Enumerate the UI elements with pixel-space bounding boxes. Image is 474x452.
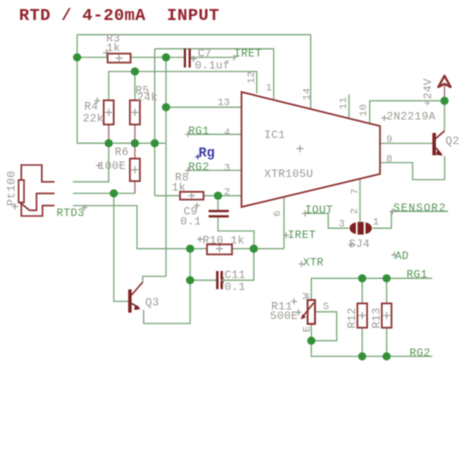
wire Q3 emitter loop	[144, 280, 191, 323]
transistor Q2 2N2219A	[432, 131, 444, 156]
svg-text:100E: 100E	[98, 161, 126, 173]
origin cross R4	[94, 98, 100, 104]
wire pin6	[283, 198, 285, 249]
capacitor C7	[184, 49, 191, 68]
svg-text:RG2: RG2	[410, 348, 431, 360]
wire Pt100 T1	[73, 143, 109, 182]
wire IRET vertical rail	[165, 57, 167, 276]
junction node pin2	[214, 192, 222, 200]
junction node R3 rail	[73, 53, 81, 61]
wire Pt100 T3 to R10 row	[73, 206, 207, 249]
origin cross R11	[291, 298, 297, 304]
wire C11 left	[190, 279, 216, 281]
capacitor C9	[209, 210, 229, 218]
wire RG1 bottom row	[311, 278, 432, 300]
junction node R5 top	[131, 67, 139, 75]
wire R11 S loop	[311, 312, 336, 341]
resistor R13	[382, 303, 392, 327]
origin cross C11	[221, 277, 227, 283]
wire Pt100 T2	[73, 192, 135, 194]
capacitor C11	[216, 271, 223, 289]
svg-text:8: 8	[386, 153, 392, 165]
wire C9 bottom loop	[218, 218, 254, 249]
origin cross RTD3	[82, 205, 88, 211]
svg-text:Rg: Rg	[199, 147, 215, 162]
wire C9 top stub	[217, 196, 219, 210]
junction node pin13	[162, 103, 170, 111]
svg-text:XTR105U: XTR105U	[264, 169, 313, 181]
svg-text:+24V: +24V	[423, 78, 435, 106]
op-amp U1 XTR105U body	[242, 92, 381, 207]
svg-text:1k: 1k	[172, 183, 186, 195]
origin cross IRET bottom	[283, 232, 289, 238]
origin cross SJ4	[348, 242, 354, 248]
svg-text:2: 2	[224, 186, 230, 198]
origin cross R10	[197, 236, 203, 242]
wire left rail	[76, 35, 78, 144]
svg-text:0.1: 0.1	[180, 216, 201, 228]
wire pin8 to Q2 emitter	[380, 156, 445, 180]
origin cross C7	[190, 56, 196, 62]
svg-text:3: 3	[339, 218, 345, 230]
origin cross IOUT	[302, 210, 308, 216]
svg-text:R10 1k: R10 1k	[203, 235, 245, 247]
wire RG2 bottom row	[311, 341, 432, 357]
wire C11 left rail	[189, 249, 191, 281]
svg-text:11: 11	[338, 97, 350, 109]
wire R13 stubs	[386, 278, 388, 356]
svg-text:2: 2	[349, 208, 361, 214]
wire pin13	[166, 106, 242, 108]
resistor R10	[207, 244, 232, 254]
junction node R11 bottom	[307, 337, 315, 345]
junction node R13 top	[383, 274, 391, 282]
svg-text:1: 1	[266, 83, 272, 95]
solder jumper SJ4	[350, 222, 372, 235]
stub R6 top	[134, 143, 136, 158]
wire row y143	[77, 142, 166, 144]
wire pin14 drop	[310, 35, 312, 110]
wire R5 top stub	[134, 72, 136, 101]
svg-text:Q2: Q2	[446, 136, 460, 148]
svg-text:4: 4	[224, 127, 230, 139]
junction node C11 left	[186, 276, 194, 284]
wire pin12 row	[109, 72, 257, 101]
svg-text:RTD3: RTD3	[57, 208, 85, 220]
wire RG2 left row	[189, 169, 242, 171]
junction node R8 rail	[151, 139, 159, 147]
wire Q2 collector	[444, 101, 446, 131]
wire C11 right loop	[223, 249, 254, 281]
junction node R5 bottom	[131, 139, 139, 147]
junction node T2	[110, 189, 118, 197]
origin cross AD	[391, 252, 397, 258]
svg-text:E: E	[301, 326, 313, 332]
stub R6 bottom	[134, 181, 136, 193]
origin cross R3	[103, 49, 110, 56]
svg-text:3: 3	[224, 163, 230, 175]
origin cross IC1	[297, 145, 304, 152]
wire to Q3 collector	[143, 276, 166, 281]
svg-text:R13: R13	[372, 307, 384, 328]
wire IRET top bus	[77, 34, 311, 36]
junction node IRET rail top	[162, 53, 170, 61]
junction node R4 bottom	[105, 139, 113, 147]
svg-text:RG1: RG1	[407, 269, 428, 281]
origin cross Q2	[381, 115, 387, 121]
svg-text:24k: 24k	[137, 92, 158, 104]
svg-text:14: 14	[301, 88, 313, 100]
junction node R10 left	[186, 245, 194, 253]
junction node R12 top	[358, 274, 366, 282]
svg-text:1: 1	[373, 217, 379, 229]
svg-text:2N2219A: 2N2219A	[387, 112, 436, 124]
svg-text:IRET: IRET	[234, 49, 262, 61]
svg-text:500E: 500E	[270, 311, 298, 323]
svg-text:Pt100: Pt100	[7, 171, 19, 206]
svg-text:C7: C7	[198, 48, 212, 60]
svg-text:R6: R6	[115, 147, 129, 159]
wire C7 to IRET label	[191, 56, 237, 58]
svg-text:6: 6	[272, 210, 284, 216]
resistor R12	[357, 303, 367, 327]
wire pin10 to +24V	[370, 101, 445, 124]
wire R11 bottom stub	[310, 324, 312, 341]
resistor R8	[180, 192, 204, 200]
svg-text:C11: C11	[225, 270, 246, 282]
wire pin11 stub	[348, 94, 350, 118]
svg-text:R4: R4	[84, 101, 98, 113]
wire pin9 to Q2 base	[380, 142, 432, 144]
wire pin7 to SJ4	[359, 179, 361, 222]
resistor R4	[104, 100, 114, 124]
origin cross RG1 left	[185, 131, 191, 137]
svg-text:Q3: Q3	[145, 298, 159, 310]
origin cross C9	[194, 203, 200, 209]
svg-text:12: 12	[246, 71, 258, 83]
junction node R10 right	[250, 245, 258, 253]
origin cross SENSOR2	[390, 208, 396, 214]
wire SJ4 pin1 to SENSOR2	[373, 211, 449, 228]
svg-text:13: 13	[218, 97, 230, 109]
wire pin1 net from R8 rail	[155, 49, 274, 99]
svg-text:AD: AD	[395, 251, 409, 263]
svg-text:R12: R12	[347, 307, 359, 328]
wire IOUT to SJ4 pin3	[306, 213, 349, 228]
wire R10 right row	[232, 248, 284, 250]
svg-text:9: 9	[386, 134, 392, 146]
potentiometer R11	[301, 300, 315, 324]
svg-text:RTD / 4-20mA INPUT: RTD / 4-20mA INPUT	[19, 7, 219, 26]
svg-text:22k: 22k	[83, 114, 104, 126]
origin cross R6	[96, 163, 102, 169]
svg-text:IC1: IC1	[264, 130, 285, 142]
resistor R3	[108, 54, 131, 63]
power +24V arrow	[438, 76, 450, 101]
svg-text:RG2: RG2	[188, 162, 209, 174]
resistor R6	[130, 159, 140, 182]
wire R8 to pin2	[204, 195, 242, 197]
wire R8 rail	[155, 49, 180, 196]
origin cross IRET top	[231, 55, 237, 61]
resistor R5	[130, 100, 140, 124]
origin cross RG2 left	[185, 167, 191, 173]
svg-text:IOUT: IOUT	[305, 205, 333, 217]
junction node R12 bottom	[358, 352, 366, 360]
svg-text:IRET: IRET	[288, 230, 316, 242]
svg-text:10: 10	[358, 104, 370, 116]
svg-text:XTR: XTR	[303, 257, 324, 269]
svg-text:1k: 1k	[106, 43, 120, 55]
svg-text:W: W	[301, 292, 313, 299]
svg-text:SENSOR2: SENSOR2	[393, 203, 446, 215]
RTD Pt100	[19, 165, 55, 216]
transistor Q3	[128, 282, 143, 313]
svg-text:7: 7	[350, 188, 362, 194]
wire R3 row	[77, 56, 184, 58]
junction node +24V	[440, 97, 448, 105]
stub R5 bottom	[134, 125, 136, 144]
svg-text:S: S	[323, 301, 329, 313]
junction node R13 bottom	[383, 352, 391, 360]
wire R12 stubs	[361, 278, 363, 356]
svg-text:RG1: RG1	[188, 126, 209, 138]
origin cross Pt100	[12, 204, 18, 210]
origin cross 500E	[296, 309, 302, 315]
wire T2 rail to Q3 base	[114, 193, 128, 301]
svg-text:0.1: 0.1	[225, 282, 246, 294]
wire RG1 left row	[189, 133, 242, 135]
stub R4 bottom	[108, 125, 110, 144]
origin tick Rg	[195, 154, 200, 159]
svg-text:0.1uf: 0.1uf	[195, 61, 230, 73]
origin cross XTR	[299, 261, 305, 267]
